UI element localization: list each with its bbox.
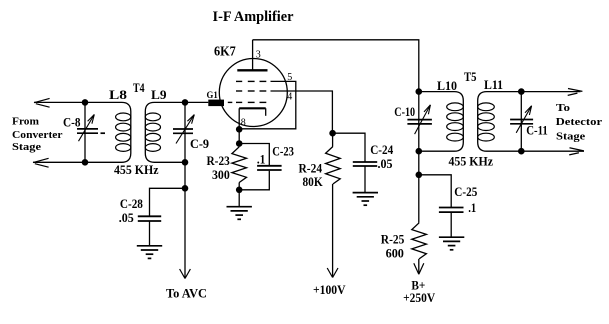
node dot C-28 branch — [182, 185, 189, 192]
wire R-23 to ground — [238, 190, 240, 207]
svg-text:R-23: R-23 — [207, 153, 231, 168]
wire C-23 bottom branch — [239, 171, 269, 190]
ground (C-28) — [137, 246, 162, 259]
svg-text:+100V: +100V — [313, 282, 346, 297]
wire pin 8 cathode lead — [238, 108, 240, 129]
inductor L8 (T4 primary) — [85, 102, 131, 162]
label From Converter Stage — [12, 115, 63, 152]
svg-text:+250V: +250V — [403, 290, 436, 305]
svg-text:455 KHz: 455 KHz — [449, 154, 494, 169]
capacitor C-9 (variable) — [173, 115, 194, 144]
wire C-24 branch — [333, 133, 365, 162]
svg-text:.05: .05 — [119, 210, 134, 225]
ground (C-24) — [353, 193, 378, 206]
svg-text:To AVC: To AVC — [166, 286, 207, 301]
wire screen pin 4 to node C — [271, 91, 333, 133]
wire AVC vertical — [184, 162, 186, 278]
svg-text:455 KHz: 455 KHz — [114, 162, 159, 177]
svg-text:80K: 80K — [303, 174, 324, 189]
svg-text:300: 300 — [212, 167, 230, 182]
capacitor C-25 — [439, 208, 464, 213]
inductor L10 (T5 primary) — [419, 92, 464, 152]
wire plate to T5 primary — [253, 40, 419, 92]
wire T4 secondary to grid cap — [185, 101, 208, 103]
node dot R-23 top — [236, 140, 243, 147]
wire node A vertical (C-8 branch) — [84, 102, 86, 162]
wire C-24 to ground — [364, 166, 366, 192]
wire node B vertical (C-9 branch) — [184, 102, 186, 162]
tube cathode — [239, 108, 266, 116]
svg-text:T5: T5 — [464, 69, 477, 84]
svg-text:L9: L9 — [151, 87, 167, 102]
ground (C-25) — [439, 237, 464, 250]
wire output bottom with arrow to detector — [521, 148, 584, 155]
capacitor C-28 — [138, 216, 161, 221]
arrowhead to +100V — [327, 268, 338, 278]
wire C-25 to ground — [450, 212, 452, 237]
tube plate bar — [237, 69, 267, 71]
resistor R-25 — [412, 175, 427, 274]
resistor R-23 — [232, 144, 247, 190]
capacitor C-24 — [353, 162, 377, 166]
wire output top with arrow to detector — [521, 89, 582, 96]
svg-text:8: 8 — [241, 117, 246, 128]
svg-text:4: 4 — [287, 91, 292, 102]
tube plate lead pin 3 — [252, 40, 254, 71]
svg-text:600: 600 — [386, 246, 404, 261]
node dot R-23 bottom — [236, 187, 243, 194]
node dot T4 secondary top — [182, 99, 189, 106]
svg-text:Detector: Detector — [556, 116, 603, 128]
wire cathode node to R-23 node — [238, 129, 240, 143]
wire T5 primary bottom down — [418, 151, 420, 175]
wire node E vertical (C-11 branch) — [520, 92, 522, 152]
svg-text:L11: L11 — [484, 77, 503, 92]
resistor R-24 — [326, 133, 341, 277]
node dot T4 primary bottom — [82, 159, 89, 166]
svg-text:C-23: C-23 — [272, 143, 294, 158]
wire suppressor to cathode (pin 5) — [239, 81, 296, 128]
arrowhead to AVC — [180, 269, 191, 279]
svg-text:L8: L8 — [109, 87, 128, 102]
svg-text:From: From — [12, 115, 39, 127]
grid cap G1 (filled) — [208, 100, 224, 107]
svg-text:I-F Amplifier: I-F Amplifier — [213, 9, 294, 25]
svg-text:C-10: C-10 — [394, 104, 415, 119]
tube control grid (dashed) — [228, 101, 266, 103]
node dot cathode junction — [236, 126, 243, 133]
wire C-28 to ground — [149, 221, 151, 246]
tube U1 6K7 envelope — [219, 59, 287, 127]
node dot C-25 branch — [416, 172, 423, 179]
node dot T5 primary bottom — [416, 148, 423, 155]
node dot T4 primary top — [82, 99, 89, 106]
capacitor C-10 (variable) — [407, 105, 432, 134]
node dot T5 secondary bottom — [518, 148, 525, 155]
tube suppressor grid (dashed) — [236, 80, 266, 82]
svg-text:C-24: C-24 — [370, 142, 393, 157]
tube screen grid (dashed) — [236, 90, 266, 92]
svg-text:T4: T4 — [133, 80, 145, 95]
svg-text:L10: L10 — [437, 78, 457, 93]
svg-text:To: To — [556, 102, 571, 114]
node dot T5 primary top — [416, 88, 423, 95]
node dot T4 secondary bottom — [182, 159, 189, 166]
inductor L11 (T5 secondary) — [478, 92, 522, 152]
wire C-25 branch — [419, 175, 451, 208]
svg-text:6K7: 6K7 — [214, 45, 236, 60]
capacitor C-8 (variable) — [77, 115, 105, 142]
wire input bottom with arrow from converter — [33, 158, 85, 167]
svg-text:C-8: C-8 — [63, 114, 81, 129]
wire input top with arrow from converter — [34, 98, 85, 107]
svg-text:R-25: R-25 — [381, 232, 405, 247]
svg-text:C-25: C-25 — [454, 184, 477, 199]
wire C-28 branch — [150, 188, 186, 216]
svg-text:C-11: C-11 — [526, 122, 548, 137]
svg-text:C-9: C-9 — [190, 136, 209, 151]
inductor L9 (T4 secondary) — [145, 102, 185, 162]
svg-text:G1: G1 — [207, 91, 218, 101]
wire C-23 top branch — [239, 144, 269, 166]
wire node D vertical (C-10 branch) — [418, 92, 420, 152]
label To Detector Stage — [556, 102, 603, 143]
capacitor C-23 — [257, 166, 282, 170]
capacitor C-11 (variable) — [510, 106, 533, 133]
svg-text:.05: .05 — [378, 156, 393, 171]
svg-text:Stage: Stage — [12, 141, 41, 153]
svg-text:Converter: Converter — [12, 129, 63, 141]
ground (R-23/C-23) — [227, 207, 252, 220]
svg-text:.1: .1 — [468, 200, 476, 215]
svg-text:Stage: Stage — [556, 131, 585, 143]
node dot T5 secondary top — [518, 88, 525, 95]
node dot R-24 top — [329, 130, 336, 137]
svg-text:C-28: C-28 — [120, 196, 143, 211]
svg-text:.1: .1 — [257, 152, 265, 167]
arrowhead to B+ — [414, 263, 424, 274]
svg-text:3: 3 — [256, 50, 261, 61]
